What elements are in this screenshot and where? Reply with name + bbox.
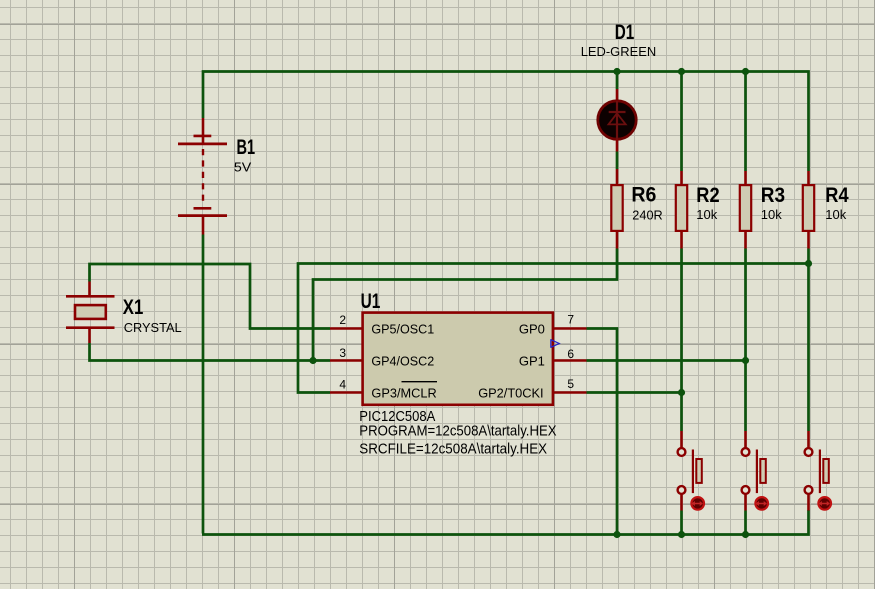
pin 6 GP1 bbox=[519, 347, 587, 368]
resistor R4 bbox=[803, 171, 814, 249]
value 10k R2 bbox=[696, 207, 717, 222]
value 10k R4 bbox=[825, 207, 846, 222]
wire button 1 to ground rail bbox=[680, 511, 683, 535]
label R6 bbox=[631, 184, 656, 207]
pin 4 GP3/MCLR bbox=[330, 378, 437, 401]
resistor R6 bbox=[611, 169, 622, 249]
value 240R bbox=[632, 208, 662, 223]
svg-text:GP0: GP0 bbox=[519, 321, 545, 336]
wire R4 bottom to button 3 bbox=[807, 249, 810, 432]
button 1 bbox=[678, 431, 704, 511]
svg-text:3: 3 bbox=[339, 346, 346, 360]
junction GP2-R2 bbox=[678, 389, 685, 396]
svg-text:4: 4 bbox=[339, 378, 346, 392]
wire R2 top bbox=[680, 72, 683, 172]
label R4 bbox=[825, 184, 849, 207]
label U1 bbox=[361, 290, 381, 313]
junction MCLR-R4 bbox=[805, 260, 812, 267]
label X1 bbox=[123, 296, 144, 319]
pin 7 GP0 bbox=[519, 313, 587, 337]
svg-text:240R: 240R bbox=[632, 208, 662, 223]
wire LED top feed bbox=[616, 72, 619, 90]
wire LED to R6 bbox=[616, 152, 619, 170]
svg-text:R4: R4 bbox=[825, 184, 849, 207]
button 3 bbox=[805, 431, 831, 511]
resistor R3 bbox=[740, 171, 751, 249]
junction VCC-LED bbox=[613, 68, 620, 75]
junction ground-button1 bbox=[678, 531, 685, 538]
label R3 bbox=[761, 184, 785, 207]
junction VCC-R3 bbox=[742, 68, 749, 75]
svg-text:6: 6 bbox=[567, 347, 574, 361]
wire R3 bottom to button 2 bbox=[744, 249, 747, 432]
svg-text:CRYSTAL: CRYSTAL bbox=[124, 320, 182, 335]
wire crystal top to GP5/OSC1 bbox=[90, 264, 331, 329]
wire R2 bottom to button 1 bbox=[680, 249, 683, 432]
svg-text:10k: 10k bbox=[825, 207, 846, 222]
svg-text:B1: B1 bbox=[237, 136, 256, 159]
LED D1 bbox=[598, 89, 636, 152]
value CRYSTAL bbox=[124, 320, 182, 335]
label B1 bbox=[237, 136, 256, 159]
svg-text:R3: R3 bbox=[761, 184, 785, 207]
pin 3 GP4/OSC2 bbox=[330, 346, 434, 368]
label R2 bbox=[696, 184, 719, 207]
svg-text:10k: 10k bbox=[696, 207, 717, 222]
pin 2 GP5/OSC1 bbox=[330, 313, 434, 336]
resistor R2 bbox=[676, 171, 687, 249]
junction GP1-R3 bbox=[742, 357, 749, 364]
svg-text:SRCFILE=12c508A\tartaly.HEX: SRCFILE=12c508A\tartaly.HEX bbox=[359, 442, 547, 458]
wire GP0 to ground rail bbox=[587, 329, 618, 534]
wire battery negative down bbox=[202, 235, 205, 534]
value 10k R3 bbox=[761, 207, 782, 222]
battery B1 bbox=[178, 118, 227, 235]
pin 5 GP2/T0CKI bbox=[478, 377, 586, 400]
wire GP1 to R3 column bbox=[587, 359, 746, 362]
svg-text:PROGRAM=12c508A\tartaly.HEX: PROGRAM=12c508A\tartaly.HEX bbox=[359, 424, 557, 440]
svg-text:R6: R6 bbox=[631, 184, 656, 207]
wire crystal bottom to GP4/OSC2 bbox=[90, 343, 331, 361]
junction VCC-R2 bbox=[678, 68, 685, 75]
svg-text:GP4/OSC2: GP4/OSC2 bbox=[371, 353, 434, 368]
svg-text:2: 2 bbox=[339, 313, 346, 327]
svg-text:7: 7 bbox=[567, 313, 574, 327]
svg-text:GP3/MCLR: GP3/MCLR bbox=[371, 385, 436, 400]
svg-text:5V: 5V bbox=[234, 160, 252, 175]
svg-text:GP5/OSC1: GP5/OSC1 bbox=[371, 321, 434, 336]
value LED-GREEN bbox=[581, 44, 657, 59]
svg-text:10k: 10k bbox=[761, 207, 782, 222]
svg-text:GP2/T0CKI: GP2/T0CKI bbox=[478, 385, 543, 400]
wire GP3/MCLR to R4 pullup net bbox=[298, 264, 809, 393]
wire R3 top bbox=[744, 72, 747, 172]
svg-text:5: 5 bbox=[567, 377, 574, 391]
button 2 bbox=[742, 431, 768, 511]
IC U1 PIC12C508A bbox=[363, 313, 553, 405]
wire VCC top rail bbox=[203, 72, 809, 172]
svg-text:U1: U1 bbox=[361, 290, 381, 313]
label D1 bbox=[615, 21, 635, 44]
junction ground-button2 bbox=[742, 531, 749, 538]
svg-text:LED-GREEN: LED-GREEN bbox=[581, 44, 657, 59]
wire ground bottom rail bbox=[202, 510, 809, 535]
svg-text:X1: X1 bbox=[123, 296, 144, 319]
junction ground-GP0 bbox=[613, 531, 620, 538]
wire GP2 to R2 column bbox=[587, 391, 682, 394]
property SRCFILE bbox=[359, 442, 547, 458]
value 5V bbox=[234, 160, 252, 175]
svg-text:GP1: GP1 bbox=[519, 353, 545, 368]
wire R6 bottom to GP4 net bbox=[313, 249, 617, 361]
U1 origin marker bbox=[551, 339, 560, 348]
svg-text:R2: R2 bbox=[696, 184, 719, 207]
svg-text:D1: D1 bbox=[615, 21, 635, 44]
wire button 2 to ground rail bbox=[744, 511, 747, 535]
value PIC12C508A bbox=[359, 409, 435, 425]
property PROGRAM bbox=[359, 424, 557, 440]
junction crystal-GP4 bbox=[309, 357, 316, 364]
crystal X1 bbox=[66, 282, 115, 344]
